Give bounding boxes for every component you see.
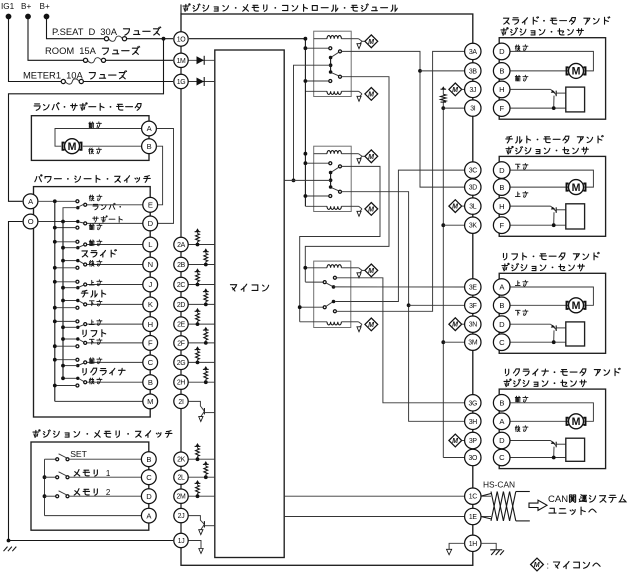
wire lift motor sensor sensor low — [510, 341, 566, 343]
svg-text:M: M — [368, 322, 374, 329]
label slide motor sensor line2 — [501, 28, 508, 36]
connector 3B — [465, 63, 481, 79]
label tilt top dir — [89, 280, 94, 285]
svg-text:3F: 3F — [469, 303, 477, 310]
wire 2K to mcu — [189, 458, 215, 460]
svg-text:3G: 3G — [469, 400, 478, 407]
resistor pull-up 2M — [197, 493, 199, 496]
mcu diamond at 3P — [449, 434, 462, 447]
relay RY1 pole up — [339, 50, 342, 53]
relay RY2 pole up — [339, 165, 342, 168]
svg-text:M: M — [452, 322, 458, 329]
wire bus to 3B — [420, 70, 465, 72]
svg-text:M: M — [452, 87, 458, 94]
relay RY2 coil 1 — [314, 153, 327, 155]
svg-text:3N: 3N — [469, 322, 478, 329]
wire RY3 contact down to 3A — [336, 51, 464, 311]
connector 1G — [174, 74, 188, 88]
resistor pull-up 2D — [205, 302, 207, 305]
connector lumbar B — [142, 139, 157, 154]
switch recline bottom pole — [76, 377, 79, 380]
wire bus to 3I — [443, 107, 465, 109]
module box — [181, 14, 473, 565]
switch recline top contact — [76, 358, 79, 361]
switch lumbar front contact — [76, 226, 79, 229]
label front (zenpo) — [89, 122, 94, 128]
link lumbar middles to O — [63, 208, 78, 222]
relay RY1 armature — [329, 56, 333, 60]
connector switch A — [23, 194, 38, 209]
relay RY3 coil2 to mcu diamond — [351, 321, 359, 323]
switch slide bottom pole — [76, 259, 79, 262]
svg-text:M: M — [534, 562, 540, 569]
svg-text:3D: 3D — [469, 185, 478, 192]
connector 2K — [174, 452, 188, 466]
switch tilt top pole — [84, 283, 87, 286]
wire B+ down to P.SEAT fuse — [47, 17, 107, 39]
wire recline top pole out — [87, 361, 143, 363]
svg-text:B: B — [499, 301, 504, 310]
connector 2C — [174, 277, 188, 291]
lift motor sensor box — [499, 273, 605, 353]
svg-text:M: M — [368, 206, 374, 213]
svg-text:3L: 3L — [469, 204, 477, 211]
connector 3L — [465, 198, 481, 214]
connector switch D — [143, 216, 158, 231]
connector 2F — [174, 336, 188, 350]
fuse P.SEAT D 30A — [104, 37, 108, 41]
relay RY2 contact up — [305, 162, 329, 164]
connector 3A — [465, 43, 481, 59]
label lumbar rear (koho) — [89, 195, 94, 201]
label recliner motor sensor dir bottom — [515, 426, 520, 432]
label lift motor sensor dir bottom — [515, 310, 520, 315]
memory trunk — [44, 459, 46, 515]
svg-text:2J: 2J — [178, 513, 185, 520]
connector recliner motor sensor pin D — [493, 432, 510, 449]
connector tilt motor sensor pin B — [493, 179, 510, 196]
connector lumbar A — [142, 121, 157, 136]
svg-text:P.SEAT: P.SEAT — [52, 26, 84, 37]
connector 2M — [174, 489, 188, 503]
connector 3H — [465, 413, 481, 429]
svg-text:1C: 1C — [469, 494, 478, 501]
switch tilt bottom pole — [76, 299, 79, 302]
wire IG1 down to METER1 fuse — [9, 17, 64, 82]
wire bus to 3M — [443, 341, 465, 343]
svg-text:1G: 1G — [177, 79, 186, 86]
connector tilt motor sensor pin D — [493, 162, 510, 179]
wire 2D to mcu — [189, 303, 215, 305]
resistor pull-up 2C — [197, 282, 199, 285]
connector 1M — [174, 53, 188, 67]
label lift motor sensor dir top — [515, 281, 520, 286]
connector slide motor sensor pin H — [493, 81, 510, 98]
wire trunk to M — [55, 400, 143, 402]
svg-text:3C: 3C — [469, 168, 478, 175]
wire 2H to mcu — [189, 381, 215, 383]
wire RY1 pole up bus — [342, 51, 465, 187]
svg-text:D: D — [146, 492, 152, 501]
wire 2A to mcu — [189, 244, 215, 246]
svg-text:M: M — [572, 182, 581, 194]
svg-text:M: M — [452, 438, 458, 445]
svg-text:B: B — [146, 455, 151, 464]
wire recline bottom pole out — [87, 381, 143, 383]
wire tilt motor sensor motor in — [510, 186, 568, 188]
svg-text:2C: 2C — [177, 282, 186, 289]
wire armature bus RY1-RY2 — [294, 65, 331, 180]
wire 2L to mcu — [189, 476, 215, 478]
diode D2 after 1G — [189, 81, 215, 83]
module left chain — [180, 39, 182, 541]
wire ROOM fuse to 1M — [106, 59, 173, 61]
wire lumbar pole E to E — [87, 204, 143, 206]
link lift middles — [63, 326, 78, 328]
resistor pull-up 2B — [205, 262, 207, 265]
svg-text:1: 1 — [106, 469, 111, 478]
svg-text:B: B — [147, 142, 152, 151]
label lumbar support line1 — [93, 204, 98, 209]
connector 1C — [465, 488, 481, 504]
label slide motor sensor line1 — [503, 18, 509, 24]
wire 2B to mcu — [189, 264, 215, 266]
svg-text:B: B — [499, 67, 504, 76]
resistor pull-up 2A — [197, 242, 199, 245]
svg-text:D: D — [499, 436, 505, 445]
relay RY2 contact down — [305, 195, 329, 197]
svg-text:3K: 3K — [469, 223, 478, 230]
connector 2A — [174, 237, 188, 251]
wire ground run to 1J — [9, 540, 174, 542]
wire mcu to 1E — [284, 516, 465, 518]
svg-text:H: H — [148, 320, 153, 329]
label tilt motor sensor dir bottom — [515, 192, 520, 197]
connector 3P — [465, 432, 481, 448]
svg-text:H: H — [499, 85, 504, 94]
wire recliner motor sensor sensor low — [510, 457, 566, 459]
resistor pull-up 2K — [197, 456, 199, 459]
motor lift motor sensor — [567, 302, 586, 309]
svg-text:M: M — [147, 397, 153, 406]
connector 2L — [174, 470, 188, 484]
svg-text:D: D — [499, 166, 505, 175]
svg-text:B: B — [499, 183, 504, 192]
svg-text:B: B — [148, 378, 153, 387]
connector 2E — [174, 317, 188, 331]
connector 3D — [465, 179, 481, 195]
connector switch F — [143, 336, 158, 351]
svg-text:1H: 1H — [469, 541, 478, 548]
svg-text:C: C — [148, 358, 154, 367]
svg-text:2I: 2I — [178, 399, 184, 406]
wire RY3 contact up to 3G — [336, 278, 464, 403]
wire slide motor sensor motor loop — [510, 51, 594, 71]
wire bus to 3O — [443, 457, 465, 459]
connector switch H — [143, 317, 158, 332]
svg-text:3O: 3O — [469, 455, 479, 462]
connector switch M — [143, 394, 158, 409]
wire lift motor sensor motor loop — [510, 287, 594, 305]
switch lumbar rear contact — [76, 200, 79, 203]
connector 1O — [174, 32, 188, 46]
relay RY2 armature — [329, 171, 333, 175]
label recliner motor sensor line1 — [505, 369, 508, 375]
switch memory 2 — [45, 495, 56, 497]
svg-text:C: C — [146, 473, 152, 482]
relay RY3 filled down to 3C — [332, 300, 336, 304]
connector 3N — [465, 316, 481, 332]
svg-text:3B: 3B — [469, 68, 478, 75]
wire METER1 fuse to 1G — [83, 81, 173, 83]
switch slide top pole — [84, 243, 87, 246]
connector lift motor sensor pin C — [493, 334, 510, 351]
motor recliner motor sensor — [567, 418, 586, 425]
motor slide motor sensor — [567, 67, 586, 74]
svg-text:M: M — [368, 91, 374, 98]
svg-text:E: E — [148, 201, 153, 210]
wire RY2 pole down bus — [342, 192, 465, 422]
label tilt bottom dir — [89, 301, 94, 306]
wire slide motor sensor motor in — [510, 70, 568, 72]
wire tilt motor sensor sensor low — [510, 224, 566, 226]
wire recliner motor sensor motor loop — [510, 403, 594, 422]
connector memory C — [141, 470, 156, 485]
label recliner motor sensor dir top — [515, 396, 520, 402]
label tilt motor sensor dir top — [515, 164, 520, 169]
relay RY3 coil 2 — [300, 321, 327, 323]
label lift top dir — [89, 320, 94, 325]
connector switch C — [143, 355, 158, 370]
resistor pull-up 2F — [205, 340, 207, 343]
mcu diamond at 3N — [449, 318, 462, 331]
relay RY3 box — [314, 261, 351, 327]
relay RY1 contact up — [305, 47, 329, 49]
switch SET — [45, 458, 56, 460]
label recliner motor sensor line2 — [504, 379, 511, 387]
svg-text:2D: 2D — [177, 302, 186, 309]
wire lumbar A to switch D — [157, 129, 174, 224]
connector lift motor sensor pin D — [493, 316, 510, 333]
link slide middles — [63, 247, 78, 249]
wire recliner motor sensor wiper — [510, 440, 551, 442]
wire lift bottom pole out — [87, 342, 143, 344]
svg-text:3I: 3I — [470, 106, 476, 113]
switch lumbar middle contact D — [76, 220, 79, 223]
connector slide motor sensor pin B — [493, 63, 510, 80]
wire RY1 pole down to RY3 feed — [305, 77, 389, 282]
svg-text:SET: SET — [70, 449, 87, 459]
connector 2H — [174, 375, 188, 389]
wire B+ branch to seat switch A — [9, 39, 164, 202]
label slide motor sensor dir top — [515, 45, 520, 51]
svg-text:2B: 2B — [177, 262, 186, 269]
relay RY3 coil 1 — [305, 267, 327, 269]
connector 3O — [465, 449, 481, 465]
svg-text:J: J — [148, 280, 152, 289]
trunk switch common vertical — [62, 222, 64, 379]
svg-text:2: 2 — [106, 488, 111, 497]
svg-text:B+: B+ — [40, 2, 50, 11]
relay RY2 coil2 to mcu diamond — [351, 205, 358, 207]
wire sensor bus — [442, 108, 444, 457]
switch recline bottom contact — [76, 384, 79, 387]
connector tilt motor sensor pin F — [493, 217, 510, 234]
svg-text:2K: 2K — [177, 457, 186, 464]
svg-text:M: M — [572, 416, 581, 428]
svg-text:M: M — [368, 268, 374, 275]
svg-text:METER1: METER1 — [23, 70, 61, 81]
connector 3M — [465, 334, 481, 350]
trunk switch feed vertical — [54, 201, 56, 401]
label CAN system units line2 — [549, 508, 556, 513]
svg-text::: : — [547, 560, 550, 570]
label lumbar support line2 — [93, 217, 99, 223]
label position memory control module — [183, 4, 190, 12]
svg-text:C: C — [499, 453, 505, 462]
connector lift motor sensor pin A — [493, 279, 510, 296]
svg-text:3H: 3H — [469, 419, 478, 426]
position sensor recliner motor sensor — [566, 438, 585, 461]
connector 3G — [465, 395, 481, 411]
ground 1H right chassis — [481, 543, 496, 550]
connector memory B — [141, 452, 156, 467]
relay RY2 coil 2 — [305, 205, 327, 207]
connector memory D — [141, 489, 156, 504]
motor M1 lumbar — [63, 143, 82, 150]
wire tilt top pole out — [87, 284, 143, 286]
resistor pull-up 2G — [197, 360, 199, 363]
svg-text:1O: 1O — [177, 37, 187, 44]
label lift — [83, 330, 86, 336]
recliner motor sensor box — [499, 389, 605, 469]
relay RY3 contact up out — [333, 276, 336, 279]
connector lift motor sensor pin B — [493, 297, 510, 314]
svg-text:F: F — [500, 221, 505, 230]
diode D1 after 1M — [189, 59, 215, 61]
switch lift bottom contact — [76, 345, 79, 348]
wire RY2 pole up to RY3 pole2 feed — [300, 166, 380, 321]
wire 2C to mcu — [189, 284, 215, 286]
svg-text:M: M — [572, 66, 581, 78]
label slide top dir — [89, 240, 94, 246]
connector 3C — [465, 162, 481, 178]
wire lift motor sensor wiper — [510, 323, 551, 325]
label recline — [83, 369, 86, 375]
svg-text:B: B — [499, 399, 504, 408]
svg-text:1J: 1J — [178, 538, 185, 545]
ground chassis bottom-left — [7, 539, 11, 543]
svg-text:3A: 3A — [469, 49, 478, 56]
position sensor slide motor sensor — [566, 87, 585, 112]
relay RY1 coil2 to mcu diamond — [351, 90, 358, 92]
label tilt motor sensor line2 — [506, 146, 513, 154]
label tilt motor sensor line1 — [506, 136, 513, 143]
wire A to lumbar switch contacts — [38, 200, 76, 202]
svg-text:2M: 2M — [177, 494, 187, 501]
svg-text:M: M — [68, 141, 77, 153]
switch slide top contact — [76, 240, 79, 243]
connector switch L — [143, 237, 158, 252]
wire tilt motor sensor wiper — [510, 205, 551, 207]
wire 2E to mcu — [189, 323, 215, 325]
wire slide motor sensor sensor low — [510, 107, 566, 109]
label recline top dir — [89, 358, 94, 364]
wire O to common trunk — [38, 221, 78, 223]
connector 3K — [465, 217, 481, 233]
resistor sensor pull-up — [442, 102, 444, 108]
relay RY3 filled up to 3E — [332, 285, 336, 289]
relay RY3 contact down out — [333, 310, 336, 313]
switch lumbar pole E — [84, 203, 87, 206]
svg-text:3E: 3E — [469, 285, 478, 292]
svg-text:D: D — [148, 219, 154, 228]
position sensor tilt motor sensor — [566, 204, 585, 229]
svg-text:M: M — [572, 300, 581, 312]
wire 2F to mcu — [189, 342, 215, 344]
trunk relay feed — [304, 39, 306, 207]
wire tilt bottom pole out — [87, 303, 143, 305]
resistor pull-up 2H — [205, 379, 207, 382]
fuse ROOM 15A — [83, 58, 87, 62]
wire P.SEAT fuse to 1O — [127, 38, 173, 40]
label rear (koho) — [89, 148, 94, 154]
svg-text:3M: 3M — [468, 340, 478, 347]
relay RY2 coil1 to mcu diamond — [351, 153, 358, 155]
connector 3I — [465, 100, 481, 116]
wire slide bottom pole out — [87, 264, 143, 266]
connector recliner motor sensor pin B — [493, 395, 510, 412]
connector switch B — [143, 375, 158, 390]
svg-text:2F: 2F — [177, 340, 185, 347]
wire lumbar A to motor (front) — [55, 129, 142, 147]
svg-text:L: L — [148, 240, 152, 249]
switch recline top pole — [84, 361, 87, 364]
ground output 1J to mcu — [189, 541, 202, 549]
connector 2J — [174, 508, 188, 522]
svg-text:ROOM: ROOM — [45, 45, 74, 56]
resistor pull-up 2E — [197, 321, 199, 324]
switch memory 1 — [45, 476, 56, 478]
connector 1E — [465, 508, 481, 524]
slide motor sensor box — [499, 38, 605, 120]
connector recliner motor sensor pin A — [493, 413, 510, 430]
svg-text:2E: 2E — [177, 322, 186, 329]
memory switch box — [31, 442, 149, 530]
relay RY1 coil 1 — [314, 38, 327, 40]
svg-text:3J: 3J — [469, 87, 476, 94]
legend mcu diamond — [531, 558, 544, 571]
connector 3J — [465, 81, 481, 97]
svg-text:F: F — [148, 339, 153, 348]
switch tilt bottom contact — [76, 306, 79, 309]
svg-text:IG1: IG1 — [1, 2, 15, 11]
wire bus to 3F — [409, 304, 465, 306]
connector memory A — [141, 508, 156, 523]
connector 2B — [174, 257, 188, 271]
wire 2G to mcu — [189, 361, 215, 363]
connector switch E — [143, 197, 158, 212]
wire lift motor sensor motor in — [510, 304, 568, 306]
svg-text:M: M — [368, 39, 374, 46]
svg-text:D: D — [499, 320, 505, 329]
label recline bottom dir — [89, 378, 94, 384]
relay RY1 coil1 to mcu diamond — [351, 38, 358, 40]
connector slide motor sensor pin F — [493, 100, 510, 117]
label position memory switch — [33, 430, 40, 438]
motor tilt motor sensor — [567, 184, 586, 191]
svg-text:CAN: CAN — [548, 494, 568, 505]
